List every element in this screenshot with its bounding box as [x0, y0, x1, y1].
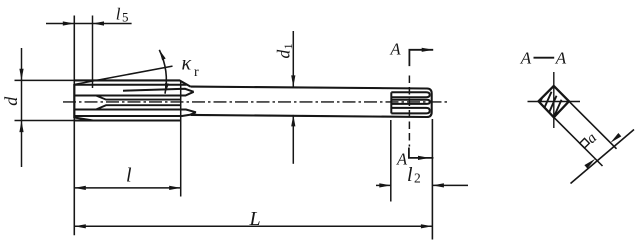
svg-text:A: A — [390, 40, 402, 59]
svg-text:5: 5 — [122, 10, 129, 25]
svg-text:2: 2 — [414, 171, 421, 186]
svg-text:A: A — [520, 48, 532, 67]
svg-text:L: L — [249, 208, 261, 230]
svg-text:A: A — [555, 48, 567, 67]
svg-text:l: l — [126, 164, 132, 186]
svg-text:r: r — [194, 65, 199, 80]
svg-text:κ: κ — [182, 52, 192, 74]
svg-text:d: d — [1, 96, 21, 106]
svg-text:1: 1 — [281, 43, 295, 49]
svg-text:d: d — [274, 50, 294, 59]
svg-text:l: l — [407, 164, 413, 186]
svg-text:l: l — [116, 5, 121, 24]
